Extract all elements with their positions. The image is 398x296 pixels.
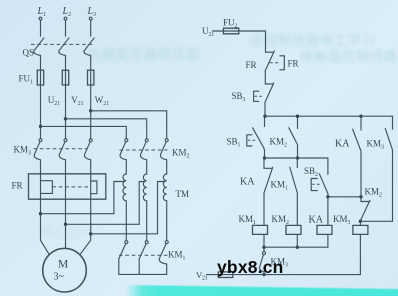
contactor KM2 main contacts — [120, 139, 190, 160]
contactor KM3 main contacts — [14, 139, 93, 160]
svg-text:SB2: SB2 — [304, 166, 318, 178]
wire branch phase1 to KM2 column1 — [41, 126, 127, 138]
svg-text:V21: V21 — [196, 270, 208, 282]
junction top bus at KA — [359, 115, 362, 118]
wire branch phase3 to KM2 column3 — [91, 111, 167, 139]
fuse FU2 — [223, 18, 239, 34]
svg-text:KA: KA — [309, 215, 324, 226]
svg-text:FR: FR — [12, 181, 23, 191]
svg-text:FU1: FU1 — [19, 74, 34, 86]
junction KM3 coil top — [359, 220, 362, 223]
svg-text:TM: TM — [176, 189, 190, 199]
wire QS to FU1 phase1 — [40, 55, 42, 70]
svg-text:L2: L2 — [62, 6, 72, 18]
watermark ybx8.cn — [217, 257, 284, 278]
contactor KM1 main contacts — [119, 241, 186, 275]
stop button SB3 — [232, 83, 274, 103]
svg-text:KM2: KM2 — [172, 148, 190, 160]
wire coil KM3 to bottom bus — [359, 234, 361, 274]
svg-text:SB3: SB3 — [232, 91, 246, 103]
svg-text:U21: U21 — [202, 26, 214, 38]
wire bottom bus — [233, 274, 360, 276]
svg-text:KA: KA — [335, 139, 350, 150]
contact KM2 NC interlock — [360, 187, 382, 221]
svg-text:KM3: KM3 — [333, 214, 351, 226]
coil KM3 — [333, 214, 368, 234]
wire tap3 to TM coil3 — [91, 182, 165, 234]
wire L2 to QS — [65, 20, 67, 36]
contact KM2 self-hold — [270, 116, 298, 158]
wire coil KM1 to return bus — [263, 234, 265, 247]
coil KA — [309, 215, 333, 235]
wire KM3 to FR phase1 — [40, 160, 42, 174]
svg-text:KM1: KM1 — [239, 214, 257, 226]
wire SB2 junction to coil KA — [327, 197, 329, 226]
svg-text:SB1: SB1 — [227, 137, 241, 149]
wire FR to motor phase3 — [80, 199, 91, 255]
svg-text:V21: V21 — [71, 95, 83, 107]
wire U21 to FU2 — [213, 30, 224, 32]
contact KM3 self-hold — [367, 116, 393, 221]
svg-text:KA: KA — [240, 177, 255, 188]
wire L3 to QS — [90, 20, 92, 36]
svg-text:L1: L1 — [37, 6, 47, 18]
relay contact KA NC — [240, 158, 273, 193]
wire KM3 branch link — [360, 220, 392, 222]
wire coil KM2 to return bus — [296, 234, 298, 247]
wire QS to FU1 phase2 — [65, 55, 67, 70]
junction tap phase3 — [89, 232, 92, 235]
wire KA NC to coil KM1 — [263, 193, 265, 226]
wire V21 to fuse — [207, 274, 219, 276]
wire FR to SB3 — [264, 71, 266, 84]
svg-text:KM2: KM2 — [270, 137, 288, 149]
wire L1 to QS — [40, 20, 42, 36]
wire SB2 link to KA branch — [328, 196, 361, 198]
wire KM3 to FR phase2 — [65, 160, 67, 174]
junction phase3 branch — [89, 109, 92, 112]
fuse FU1 — [19, 70, 94, 86]
junction phase1 branch — [39, 125, 42, 128]
wire QS to FU1 phase3 — [90, 55, 92, 70]
svg-text:FR: FR — [288, 59, 299, 69]
svg-text:L3: L3 — [87, 6, 97, 18]
svg-text:KM3: KM3 — [14, 145, 32, 157]
junction bottom bus at KM3 aux — [262, 273, 265, 276]
wire KM1 star bus — [119, 273, 167, 275]
coil KM1 — [239, 214, 268, 234]
wire FR to motor phase2 — [65, 199, 67, 248]
svg-text:3~: 3~ — [54, 272, 65, 283]
wire top bus — [265, 115, 393, 117]
motor M 3~ — [43, 248, 87, 292]
wire FU2 to FR contact — [239, 31, 266, 52]
junction phase2 branch — [64, 117, 67, 120]
wire FR to motor phase1 — [41, 199, 50, 255]
junction KA branch at link — [359, 195, 362, 198]
junction top bus at KM2 — [296, 115, 299, 118]
fuse FU2 lower — [218, 272, 233, 278]
svg-text:KM2: KM2 — [272, 214, 290, 226]
svg-text:KM3: KM3 — [367, 139, 385, 151]
svg-text:KM1: KM1 — [168, 250, 186, 262]
knife switch QS — [23, 38, 95, 58]
svg-text:U21: U21 — [48, 95, 60, 107]
junction mid bus at SB1 — [263, 156, 266, 159]
FR NC contact — [246, 51, 299, 71]
wire branch phase2 to KM2 column2 — [66, 119, 147, 139]
node L2 terminal — [62, 6, 72, 20]
svg-text:W21: W21 — [95, 95, 109, 107]
junction SB2 output — [326, 195, 329, 198]
junction mid bus at KM2 — [296, 156, 299, 159]
node L3 terminal — [87, 6, 97, 20]
wire FU1 to KM3 contacts phase3 — [90, 85, 92, 139]
relay contact KA NO — [335, 116, 361, 197]
junction return bus at KM1 — [262, 246, 265, 249]
node L1 terminal — [37, 6, 47, 20]
wire mid bus — [265, 157, 328, 159]
coil KM2 — [272, 214, 302, 234]
thermal relay FR — [12, 174, 106, 199]
wire tap2 to TM coil2 — [66, 182, 145, 225]
junction top bus left — [263, 115, 266, 118]
wire tap1 to TM coil1 — [41, 182, 125, 214]
start button SB2 — [304, 158, 328, 197]
wire SB3 to top bus — [264, 102, 266, 116]
autotransformer TM — [123, 160, 189, 241]
svg-text:FR: FR — [246, 60, 257, 70]
svg-text:M: M — [58, 259, 68, 271]
wire coil KA to return bus — [327, 234, 329, 247]
faint scan-through watermark text — [88, 44, 200, 63]
junction tap phase1 — [39, 212, 42, 215]
start button SB1 — [227, 116, 265, 158]
contact KM3 aux — [259, 247, 288, 274]
contact KM1 self-hold — [271, 158, 298, 225]
svg-text:KM1: KM1 — [271, 180, 289, 192]
wire FU1 to KM3 contacts phase2 — [65, 85, 67, 139]
cyan highlight strip — [126, 285, 398, 296]
wire FU1 to KM3 contacts phase1 — [40, 85, 42, 139]
wire coil return bus — [264, 246, 328, 248]
svg-text:KM2: KM2 — [365, 187, 383, 199]
wire KM3 to FR phase3 — [90, 160, 92, 174]
junction return bus at KM2 — [296, 246, 299, 249]
junction tap phase2 — [64, 223, 67, 226]
svg-text:QS: QS — [23, 48, 35, 58]
